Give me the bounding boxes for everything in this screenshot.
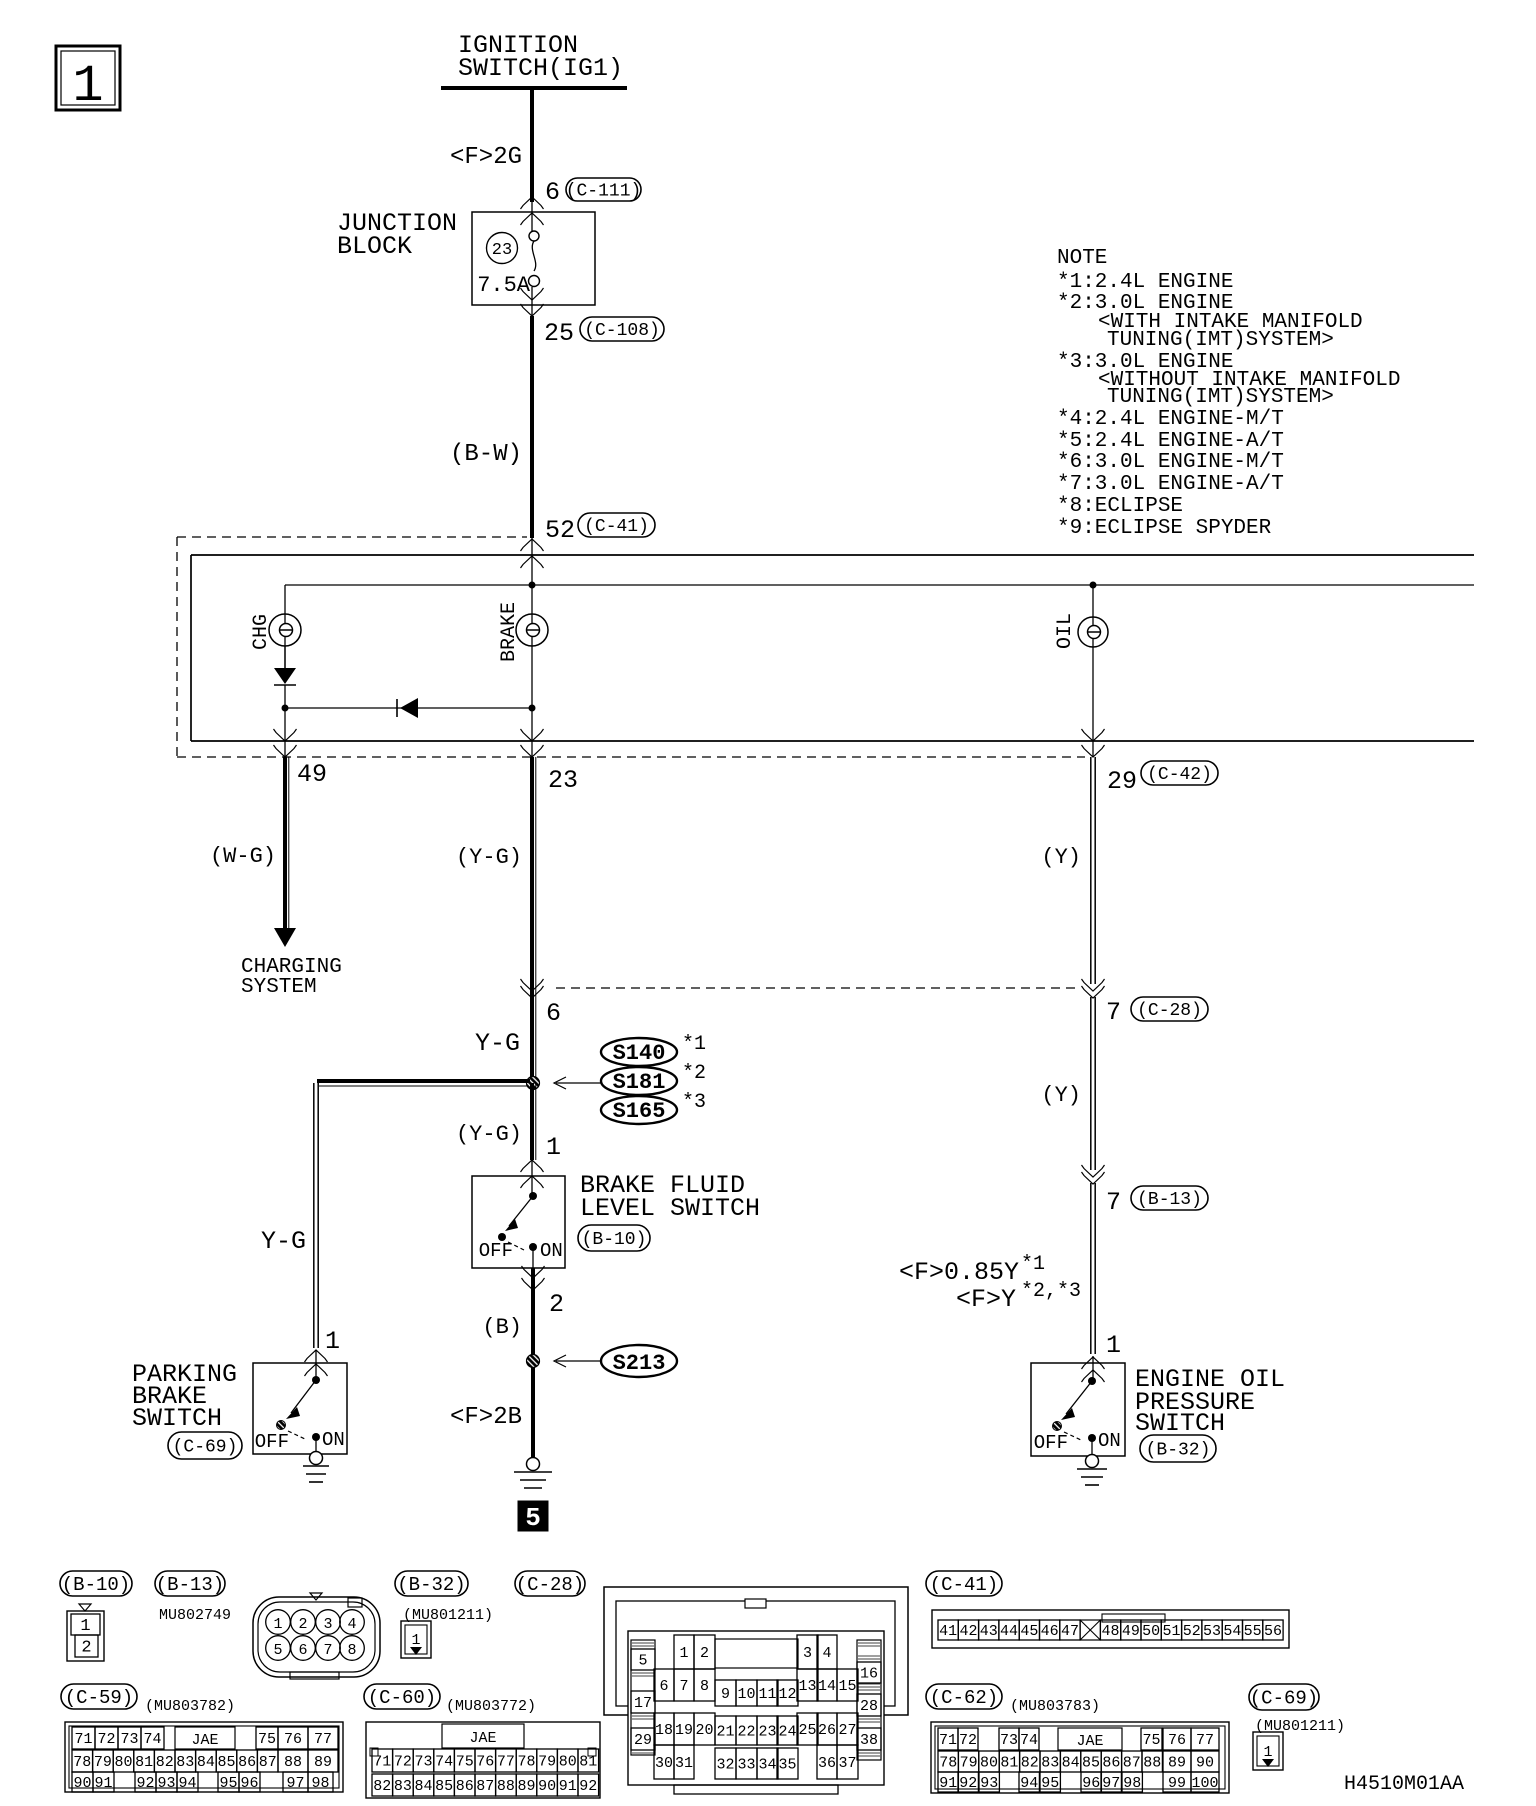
svg-text:25: 25 <box>798 1722 816 1739</box>
connector C-60 pinout <box>366 1722 600 1798</box>
svg-text:52: 52 <box>545 516 575 545</box>
connector C-59 pinout <box>65 1722 343 1792</box>
svg-text:OFF: OFF <box>479 1240 513 1262</box>
svg-text:73: 73 <box>120 1731 138 1748</box>
svg-text:100: 100 <box>1191 1775 1218 1792</box>
charging system label <box>241 956 342 999</box>
svg-text:82: 82 <box>156 1754 174 1771</box>
combination meter dashed boundary <box>177 537 1085 757</box>
svg-text:TUNING(IMT)SYSTEM>: TUNING(IMT)SYSTEM> <box>1107 386 1334 409</box>
diode under CHG lamp <box>274 646 296 708</box>
svg-text:87: 87 <box>259 1754 277 1771</box>
connector C-59 label <box>61 1684 137 1709</box>
svg-text:2: 2 <box>700 1645 709 1662</box>
svg-text:(C-62): (C-62) <box>930 1687 998 1709</box>
svg-text:OFF: OFF <box>1034 1432 1068 1454</box>
wire Y-G between C-28 and splice <box>475 1029 520 1058</box>
svg-text:(C-41): (C-41) <box>584 517 649 537</box>
meter exit wires and pass-through arrows <box>274 708 1105 757</box>
svg-text:50: 50 <box>1142 1623 1160 1640</box>
svg-text:1: 1 <box>546 1133 561 1162</box>
svg-text:(B-W): (B-W) <box>450 441 522 468</box>
svg-text:(B-13): (B-13) <box>156 1574 224 1596</box>
connector B-13 pinout <box>155 1571 380 1679</box>
junction block <box>337 209 595 305</box>
svg-text:97: 97 <box>1102 1775 1120 1792</box>
svg-text:92: 92 <box>959 1775 977 1792</box>
svg-text:1: 1 <box>72 57 103 116</box>
svg-text:4: 4 <box>347 1616 356 1633</box>
connector C-69 label <box>1249 1684 1319 1710</box>
switch contacts inside engine oil pressure switch <box>1034 1377 1121 1455</box>
svg-text:77: 77 <box>497 1753 515 1770</box>
svg-text:27: 27 <box>838 1722 856 1739</box>
svg-text:3: 3 <box>803 1645 812 1662</box>
svg-text:8: 8 <box>347 1642 356 1659</box>
svg-text:(C-59): (C-59) <box>65 1687 133 1709</box>
svg-text:<F>2G: <F>2G <box>450 144 522 171</box>
svg-text:74: 74 <box>435 1753 453 1770</box>
svg-text:Y-G: Y-G <box>261 1227 306 1256</box>
ground below parking brake switch <box>310 1452 323 1465</box>
svg-text:75: 75 <box>258 1731 276 1748</box>
svg-text:81: 81 <box>1000 1754 1018 1771</box>
svg-text:12: 12 <box>778 1686 796 1703</box>
svg-text:JAE: JAE <box>1076 1733 1103 1750</box>
svg-text:23: 23 <box>758 1723 776 1740</box>
svg-text:24: 24 <box>778 1723 796 1740</box>
svg-text:Y-G: Y-G <box>475 1029 520 1058</box>
svg-text:<F>2B: <F>2B <box>450 1404 522 1431</box>
svg-text:80: 80 <box>559 1753 577 1770</box>
ground below brake fluid level switch <box>527 1458 540 1471</box>
svg-text:81: 81 <box>135 1754 153 1771</box>
note block <box>1057 247 1400 540</box>
svg-text:(MU803772): (MU803772) <box>446 1698 536 1715</box>
svg-text:85: 85 <box>1082 1754 1100 1771</box>
svg-text:37: 37 <box>838 1755 856 1772</box>
svg-text:<F>Y: <F>Y <box>956 1285 1016 1314</box>
wire 29 (Y) down from meter <box>1041 757 1095 984</box>
svg-text:(B-10): (B-10) <box>582 1230 647 1250</box>
svg-text:78: 78 <box>73 1754 91 1771</box>
svg-text:BLOCK: BLOCK <box>337 232 412 261</box>
node: splice S213 dot <box>527 1355 540 1368</box>
svg-text:43: 43 <box>980 1623 998 1640</box>
svg-text:80: 80 <box>114 1754 132 1771</box>
svg-text:74: 74 <box>1020 1732 1038 1749</box>
parking brake switch box (C-69) <box>132 1360 347 1459</box>
svg-text:82: 82 <box>1021 1754 1039 1771</box>
svg-text:5: 5 <box>273 1642 282 1659</box>
svg-text:TUNING(IMT)SYSTEM>: TUNING(IMT)SYSTEM> <box>1107 329 1334 352</box>
wire (B) to ground <box>450 1268 533 1458</box>
svg-text:32: 32 <box>716 1756 734 1773</box>
svg-text:*9:ECLIPSE SPYDER: *9:ECLIPSE SPYDER <box>1057 517 1272 540</box>
wire Y-G to parking brake switch <box>261 1083 340 1380</box>
page reference box 5 <box>518 1501 548 1533</box>
svg-text:7: 7 <box>679 1678 688 1695</box>
svg-text:7: 7 <box>1106 998 1121 1027</box>
svg-text:SWITCH: SWITCH <box>1135 1409 1225 1438</box>
svg-text:7: 7 <box>1106 1188 1121 1217</box>
svg-text:51: 51 <box>1162 1623 1180 1640</box>
svg-text:<F>0.85Y: <F>0.85Y <box>899 1258 1019 1287</box>
node: bus junction at brake lamp <box>529 582 536 589</box>
svg-text:*1: *1 <box>682 1033 706 1056</box>
svg-text:45: 45 <box>1020 1623 1038 1640</box>
svg-text:CHG: CHG <box>250 614 273 650</box>
connector C-28 crossing on oil wire <box>1082 979 1209 1027</box>
svg-text:2: 2 <box>549 1290 564 1319</box>
svg-text:83: 83 <box>394 1778 412 1795</box>
svg-text:84: 84 <box>197 1754 215 1771</box>
svg-text:76: 76 <box>476 1753 494 1770</box>
svg-text:72: 72 <box>959 1732 977 1749</box>
svg-text:9: 9 <box>721 1686 730 1703</box>
svg-text:86: 86 <box>456 1778 474 1795</box>
svg-text:92: 92 <box>136 1775 154 1792</box>
svg-text:S165: S165 <box>613 1099 666 1124</box>
node: splice junction dot <box>527 1077 540 1090</box>
svg-text:JAE: JAE <box>469 1730 496 1747</box>
svg-text:(Y): (Y) <box>1041 1083 1081 1108</box>
svg-text:25: 25 <box>544 319 574 348</box>
svg-text:53: 53 <box>1203 1623 1221 1640</box>
splice S213 <box>554 1345 677 1377</box>
svg-text:76: 76 <box>1168 1732 1186 1749</box>
svg-text:10: 10 <box>737 1686 755 1703</box>
svg-text:78: 78 <box>939 1754 957 1771</box>
svg-text:29: 29 <box>1107 767 1137 796</box>
svg-text:52: 52 <box>1183 1623 1201 1640</box>
svg-text:7.5A: 7.5A <box>477 273 531 298</box>
svg-text:79: 79 <box>94 1754 112 1771</box>
svg-text:72: 72 <box>97 1731 115 1748</box>
svg-text:1: 1 <box>1263 1744 1272 1761</box>
svg-text:74: 74 <box>143 1731 161 1748</box>
connector B-10 pinout <box>60 1571 132 1661</box>
svg-text:6: 6 <box>545 178 560 207</box>
svg-text:*8:ECLIPSE: *8:ECLIPSE <box>1057 495 1183 518</box>
svg-text:S140: S140 <box>613 1041 666 1066</box>
node: junction below BRAKE lamp <box>529 705 536 712</box>
svg-text:20: 20 <box>695 1722 713 1739</box>
svg-text:(C-41): (C-41) <box>930 1574 998 1596</box>
connector C-41 label <box>926 1571 1002 1596</box>
svg-text:87: 87 <box>1123 1754 1141 1771</box>
svg-text:88: 88 <box>284 1754 302 1771</box>
charging system arrow <box>274 928 296 947</box>
svg-text:(C-69): (C-69) <box>173 1438 238 1458</box>
node: junction below CHG diode <box>282 705 289 712</box>
lamp OIL <box>1054 585 1108 757</box>
svg-text:47: 47 <box>1061 1623 1079 1640</box>
svg-text:16: 16 <box>860 1665 878 1682</box>
svg-text:35: 35 <box>778 1756 796 1773</box>
svg-text:(C-108): (C-108) <box>584 321 660 341</box>
svg-text:5: 5 <box>638 1652 647 1669</box>
connector C-28 crossing (dashed) <box>521 979 1079 1028</box>
svg-text:1: 1 <box>273 1616 282 1633</box>
svg-text:17: 17 <box>634 1695 652 1712</box>
svg-text:38: 38 <box>860 1732 878 1749</box>
svg-text:ON: ON <box>322 1429 345 1451</box>
svg-text:89: 89 <box>1168 1754 1186 1771</box>
ground below engine oil pressure switch <box>1086 1455 1099 1468</box>
svg-text:(Y): (Y) <box>1041 845 1081 870</box>
svg-text:94: 94 <box>1020 1775 1038 1792</box>
svg-text:88: 88 <box>497 1778 515 1795</box>
svg-text:22: 22 <box>737 1723 755 1740</box>
splice S140/S181/S165 <box>554 1033 706 1124</box>
svg-text:93: 93 <box>157 1775 175 1792</box>
svg-text:11: 11 <box>758 1686 776 1703</box>
svg-text:91: 91 <box>939 1775 957 1792</box>
svg-text:1: 1 <box>1106 1331 1121 1360</box>
svg-text:97: 97 <box>286 1775 304 1792</box>
svg-text:OFF: OFF <box>255 1431 289 1453</box>
svg-text:89: 89 <box>517 1778 535 1795</box>
svg-text:76: 76 <box>284 1731 302 1748</box>
svg-text:7: 7 <box>323 1642 332 1659</box>
svg-text:S213: S213 <box>613 1351 666 1376</box>
svg-text:83: 83 <box>1041 1754 1059 1771</box>
svg-text:*6:3.0L ENGINE-M/T: *6:3.0L ENGINE-M/T <box>1057 451 1284 474</box>
wire (Y) between C-28 and B-13 <box>1041 997 1095 1170</box>
wire: (B-W) from junction block to combination meter <box>450 316 532 538</box>
svg-text:*1: *1 <box>1021 1253 1045 1276</box>
svg-text:*4:2.4L ENGINE-M/T: *4:2.4L ENGINE-M/T <box>1057 408 1284 431</box>
svg-text:84: 84 <box>414 1778 432 1795</box>
connector pass-through arrows at junction block bottom <box>521 287 544 316</box>
svg-text:ON: ON <box>1098 1430 1121 1452</box>
svg-text:92: 92 <box>579 1778 597 1795</box>
connector C-28 pinout (38 pin) <box>604 1587 908 1794</box>
svg-text:83: 83 <box>176 1754 194 1771</box>
svg-text:(B): (B) <box>482 1315 522 1340</box>
svg-text:95: 95 <box>1041 1775 1059 1792</box>
svg-text:82: 82 <box>373 1778 391 1795</box>
engine oil pressure switch box (B-32) <box>1031 1363 1285 1462</box>
switch contacts inside brake fluid level switch <box>479 1192 563 1268</box>
svg-text:ON: ON <box>540 1240 563 1262</box>
svg-text:(B-32): (B-32) <box>397 1574 465 1596</box>
svg-text:13: 13 <box>798 1678 816 1695</box>
svg-text:29: 29 <box>634 1732 652 1749</box>
connector C-28 label <box>515 1571 585 1596</box>
svg-text:(C-111): (C-111) <box>566 182 642 202</box>
svg-text:(MU803783): (MU803783) <box>1010 1698 1100 1715</box>
svg-text:98: 98 <box>311 1775 329 1792</box>
svg-text:71: 71 <box>373 1753 391 1770</box>
svg-text:*7:3.0L ENGINE-A/T: *7:3.0L ENGINE-A/T <box>1057 473 1284 496</box>
connector C-69 pinout <box>1253 1732 1283 1770</box>
svg-text:71: 71 <box>939 1732 957 1749</box>
svg-text:SYSTEM: SYSTEM <box>241 976 317 999</box>
connector B-13 crossing on oil wire <box>1082 1165 1209 1217</box>
svg-text:(C-28): (C-28) <box>1137 1001 1202 1021</box>
svg-text:3: 3 <box>323 1616 332 1633</box>
svg-text:23: 23 <box>548 766 578 795</box>
svg-text:23: 23 <box>492 241 512 260</box>
wire (F)0.85Y / (F)Y to engine oil pressure switch <box>899 1183 1121 1382</box>
wire (Y-G) from splice to brake fluid level switch <box>456 1083 561 1196</box>
svg-text:SWITCH: SWITCH <box>132 1404 222 1433</box>
svg-text:SWITCH(IG1): SWITCH(IG1) <box>458 54 623 83</box>
svg-text:S181: S181 <box>613 1070 666 1095</box>
svg-text:91: 91 <box>559 1778 577 1795</box>
wire 49 (W-G) to charging system <box>210 757 289 928</box>
svg-text:H4510M01AA: H4510M01AA <box>1344 1773 1464 1796</box>
connector C-41 pinout <box>932 1610 1289 1648</box>
svg-text:26: 26 <box>818 1722 836 1739</box>
svg-text:(C-28): (C-28) <box>516 1574 584 1596</box>
svg-text:75: 75 <box>1142 1732 1160 1749</box>
svg-text:(C-42): (C-42) <box>1147 765 1212 785</box>
svg-text:54: 54 <box>1223 1623 1241 1640</box>
svg-text:(B-13): (B-13) <box>1137 1190 1202 1210</box>
svg-text:6: 6 <box>298 1642 307 1659</box>
svg-text:*3: *3 <box>682 1091 706 1114</box>
wire 52 entering meter / pass-through arrows <box>521 528 544 585</box>
wire 23 (Y-G) down from meter <box>456 757 536 1079</box>
svg-text:85: 85 <box>217 1754 235 1771</box>
lamp BRAKE <box>498 585 548 708</box>
svg-text:90: 90 <box>538 1778 556 1795</box>
ignition switch (IG1) source label and bus bar <box>441 31 627 88</box>
wire branch to parking brake (bold horizontal) <box>317 1081 530 1086</box>
svg-text:MU802749: MU802749 <box>159 1607 231 1624</box>
svg-text:90: 90 <box>73 1775 91 1792</box>
svg-text:96: 96 <box>240 1775 258 1792</box>
svg-text:79: 79 <box>538 1753 556 1770</box>
svg-text:2: 2 <box>81 1639 91 1658</box>
meter internal bus wire <box>285 584 1474 586</box>
svg-text:1: 1 <box>325 1327 340 1356</box>
svg-text:(C-69): (C-69) <box>1250 1687 1318 1709</box>
connector label 6 (C-111) <box>545 178 641 207</box>
svg-text:4: 4 <box>822 1645 831 1662</box>
svg-text:*1:2.4L ENGINE: *1:2.4L ENGINE <box>1057 271 1233 294</box>
svg-text:81: 81 <box>579 1753 597 1770</box>
svg-text:*2: *2 <box>682 1062 706 1085</box>
svg-text:95: 95 <box>219 1775 237 1792</box>
svg-text:1: 1 <box>679 1645 688 1662</box>
connector B-32 pinout <box>395 1571 493 1658</box>
svg-text:86: 86 <box>238 1754 256 1771</box>
svg-text:1: 1 <box>411 1632 420 1649</box>
svg-text:90: 90 <box>1196 1754 1214 1771</box>
svg-text:*2,*3: *2,*3 <box>1021 1280 1081 1303</box>
svg-text:41: 41 <box>939 1623 957 1640</box>
svg-text:33: 33 <box>737 1756 755 1773</box>
svg-text:99: 99 <box>1168 1775 1186 1792</box>
svg-text:(Y-G): (Y-G) <box>456 1122 522 1147</box>
svg-text:94: 94 <box>178 1775 196 1792</box>
pin label 29 and connector (C-42) <box>1107 761 1218 796</box>
svg-text:2: 2 <box>298 1616 307 1633</box>
svg-text:LEVEL SWITCH: LEVEL SWITCH <box>580 1194 760 1223</box>
svg-text:14: 14 <box>818 1678 836 1695</box>
lamp CHG <box>250 585 301 668</box>
svg-text:46: 46 <box>1041 1623 1059 1640</box>
svg-text:88: 88 <box>1143 1754 1161 1771</box>
svg-text:NOTE: NOTE <box>1057 247 1107 270</box>
fuse 23 (7.5A) inside junction block <box>477 231 539 298</box>
svg-text:77: 77 <box>1196 1732 1214 1749</box>
svg-text:19: 19 <box>675 1722 693 1739</box>
svg-text:28: 28 <box>860 1698 878 1715</box>
svg-text:6: 6 <box>546 999 561 1028</box>
connector pass-through arrows at junction block top <box>521 197 544 231</box>
connector label 25 (C-108) <box>544 317 664 348</box>
meter inner solid box <box>191 555 1474 741</box>
svg-text:89: 89 <box>314 1754 332 1771</box>
svg-text:86: 86 <box>1102 1754 1120 1771</box>
svg-text:15: 15 <box>838 1678 856 1695</box>
page number box 1 <box>56 46 120 116</box>
connector label 52 (C-41) <box>545 513 655 545</box>
svg-text:72: 72 <box>394 1753 412 1770</box>
svg-text:OIL: OIL <box>1054 613 1077 649</box>
connector C-62 label <box>926 1684 1002 1709</box>
switch contacts inside parking brake switch <box>255 1376 345 1453</box>
svg-text:(Y-G): (Y-G) <box>456 845 522 870</box>
pass-through arrows below switch <box>522 1266 565 1319</box>
svg-text:93: 93 <box>980 1775 998 1792</box>
svg-text:36: 36 <box>818 1755 836 1772</box>
svg-text:8: 8 <box>700 1678 709 1695</box>
svg-text:*5:2.4L ENGINE-A/T: *5:2.4L ENGINE-A/T <box>1057 430 1284 453</box>
svg-text:(B-10): (B-10) <box>62 1574 130 1596</box>
svg-text:96: 96 <box>1082 1775 1100 1792</box>
svg-text:44: 44 <box>1000 1623 1018 1640</box>
svg-text:(W-G): (W-G) <box>210 844 276 869</box>
svg-text:42: 42 <box>959 1623 977 1640</box>
svg-text:(C-60): (C-60) <box>368 1687 436 1709</box>
svg-text:91: 91 <box>94 1775 112 1792</box>
diode on cross wire (pointing left) <box>285 698 532 718</box>
svg-text:73: 73 <box>1000 1732 1018 1749</box>
svg-text:75: 75 <box>456 1753 474 1770</box>
connector C-60 label <box>364 1684 440 1709</box>
svg-text:84: 84 <box>1062 1754 1080 1771</box>
connector C-62 pinout <box>931 1722 1229 1793</box>
svg-text:1: 1 <box>80 1617 90 1636</box>
brake fluid level switch box (B-10) <box>472 1171 760 1268</box>
svg-text:30: 30 <box>655 1755 673 1772</box>
svg-text:80: 80 <box>980 1754 998 1771</box>
svg-text:49: 49 <box>1122 1623 1140 1640</box>
svg-text:98: 98 <box>1123 1775 1141 1792</box>
svg-text:31: 31 <box>675 1755 693 1772</box>
svg-text:(B-32): (B-32) <box>1146 1441 1211 1461</box>
svg-text:78: 78 <box>517 1753 535 1770</box>
svg-text:77: 77 <box>314 1731 332 1748</box>
svg-text:21: 21 <box>716 1723 734 1740</box>
svg-text:79: 79 <box>960 1754 978 1771</box>
svg-text:(MU803782): (MU803782) <box>145 1698 235 1715</box>
wire: (F)2G from ignition switch to junction block <box>450 88 532 202</box>
node: bus junction at oil lamp <box>1090 582 1097 589</box>
svg-text:BRAKE: BRAKE <box>498 602 521 662</box>
svg-text:6: 6 <box>659 1678 668 1695</box>
svg-text:48: 48 <box>1102 1623 1120 1640</box>
svg-text:56: 56 <box>1264 1623 1282 1640</box>
svg-text:5: 5 <box>525 1503 541 1533</box>
svg-text:18: 18 <box>655 1722 673 1739</box>
